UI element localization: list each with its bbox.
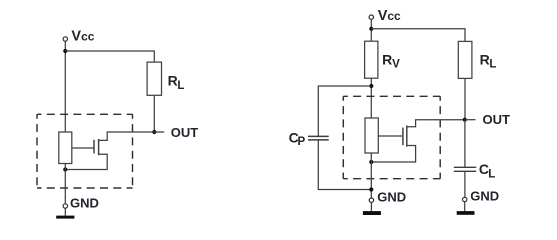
transistor Q2 channel bar <box>406 126 408 147</box>
svg-text:L: L <box>489 59 496 71</box>
ground bar right <box>457 211 475 215</box>
svg-text:GND: GND <box>70 196 99 211</box>
resistor RL left <box>147 62 161 95</box>
svg-text:Vcc: Vcc <box>71 28 94 44</box>
wire Q2 drain <box>407 120 465 127</box>
wire to CP top <box>318 86 371 136</box>
svg-text:P: P <box>298 136 306 148</box>
wire RV bottom <box>370 78 372 118</box>
wire OUT stub right <box>465 119 476 121</box>
node GND junction right <box>369 187 373 191</box>
wire GND stub left <box>64 208 66 215</box>
wire RL right to OUT <box>464 78 466 119</box>
capacitor CL plates <box>454 167 476 171</box>
wire Vcc right vertical <box>370 20 372 42</box>
wire bias to GND right <box>370 153 372 198</box>
transistor Q1 gate bar <box>93 140 95 154</box>
svg-text:Vcc: Vcc <box>378 8 401 24</box>
transistor Q2 gate bar <box>402 128 404 146</box>
wire top rail left <box>65 51 154 62</box>
resistor bias right <box>365 118 378 153</box>
node Vcc junction right <box>369 27 373 31</box>
wire gate left <box>72 147 94 149</box>
wire Q1 source <box>65 154 107 169</box>
wire top rail right <box>371 29 465 42</box>
dashed box left <box>37 114 133 188</box>
node source junction right <box>369 160 373 164</box>
dashed box right <box>343 96 440 178</box>
resistor RL right <box>458 41 472 78</box>
terminal Vcc left <box>63 37 67 41</box>
node source junction left <box>63 167 67 171</box>
svg-text:OUT: OUT <box>483 112 511 127</box>
wire OUT stub left <box>154 131 164 133</box>
resistor bias left <box>59 132 72 164</box>
svg-text:GND: GND <box>470 188 499 203</box>
wire CL to GND <box>464 172 466 198</box>
wire GND stub right <box>464 202 466 212</box>
wire Vcc left vertical <box>64 41 66 132</box>
node RV junction <box>369 84 373 88</box>
svg-text:R: R <box>480 51 490 67</box>
wire Q1 drain <box>99 132 155 140</box>
terminal GND right <box>463 197 467 201</box>
ground bar left <box>56 216 74 219</box>
resistor RV <box>365 41 378 78</box>
wire GND stub mid <box>370 202 372 211</box>
terminal GND mid <box>369 198 373 202</box>
wire RL to OUT left <box>153 95 155 132</box>
svg-text:GND: GND <box>377 189 406 204</box>
node OUT right <box>463 118 467 122</box>
wire to GND left <box>64 164 66 204</box>
svg-text:R: R <box>382 52 392 68</box>
node Vcc junction left <box>63 49 67 53</box>
terminal GND left <box>63 204 67 208</box>
wire CP bottom <box>318 140 371 189</box>
capacitor CP plates <box>308 136 329 140</box>
wire OUT to CL <box>464 120 466 167</box>
terminal Vcc right <box>369 15 373 19</box>
svg-text:OUT: OUT <box>171 125 199 140</box>
svg-text:R: R <box>168 73 178 89</box>
svg-text:L: L <box>177 80 184 92</box>
svg-text:V: V <box>392 59 400 71</box>
transistor Q1 channel bar <box>98 139 100 155</box>
ground bar mid <box>363 211 381 215</box>
svg-text:L: L <box>488 169 495 181</box>
node OUT left <box>152 130 156 134</box>
wire gate right <box>378 135 402 137</box>
wire Q2 source <box>371 146 415 163</box>
